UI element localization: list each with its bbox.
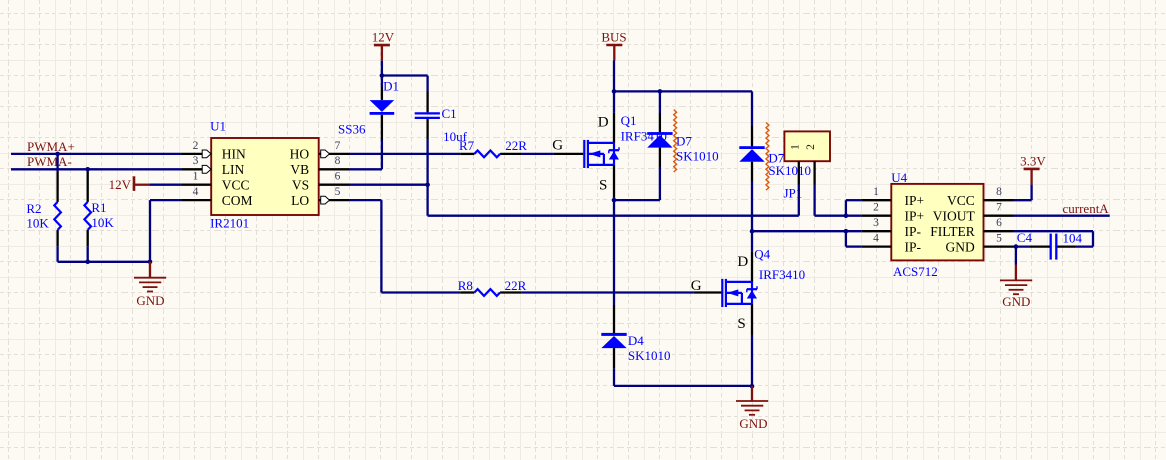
U1 pin 6 VS lead <box>319 184 349 186</box>
svg-text:HIN: HIN <box>222 147 246 162</box>
svg-text:S: S <box>737 316 745 332</box>
svg-text:10K: 10K <box>26 216 49 231</box>
transistor Q4 MOSFET symbol <box>722 279 757 307</box>
wire PWMA+ horizontal <box>11 153 182 155</box>
svg-text:6: 6 <box>335 171 341 183</box>
wire D1 to VB <box>381 140 383 169</box>
transistor Q1 MOSFET symbol <box>584 140 619 168</box>
wire FILTER horizontal <box>1014 230 1094 232</box>
svg-text:COM: COM <box>222 193 253 208</box>
resistor R8 body <box>474 289 500 296</box>
wire VS down to switch node <box>426 185 428 216</box>
svg-text:C4: C4 <box>1017 230 1033 245</box>
wire LO horizontal <box>349 199 381 201</box>
power port 12V top <box>372 30 395 61</box>
wire COM drop <box>149 200 151 262</box>
diode D7(2) body (SK1010, pointing up) <box>739 146 764 162</box>
U1 pin 2 HIN lead <box>182 153 211 155</box>
svg-text:1: 1 <box>193 171 199 183</box>
wire R1 bottom drop <box>87 246 89 261</box>
svg-text:8: 8 <box>335 155 341 167</box>
connector JP box <box>784 131 830 161</box>
svg-text:1: 1 <box>873 186 879 198</box>
Q4 gate pin <box>693 291 722 293</box>
svg-text:IR2101: IR2101 <box>210 216 249 231</box>
svg-text:SK1010: SK1010 <box>676 149 719 164</box>
wire IP+ pin1 horizontal <box>846 199 861 201</box>
junction IP+ node <box>844 213 849 218</box>
wire COM horizontal <box>150 199 182 201</box>
capacitor C4 plates <box>1051 234 1057 260</box>
wire IP+ pin1 riser <box>845 200 847 216</box>
svg-text:SK1010: SK1010 <box>628 348 671 363</box>
junction IP- node <box>844 229 849 234</box>
wire branch to C1 top <box>382 74 428 76</box>
resistor R1 pins <box>87 172 89 202</box>
U1 pin 3 LIN lead <box>182 168 211 170</box>
wire switch node horizontal <box>428 215 799 217</box>
wire JP pin1 down to switch node <box>798 185 800 216</box>
ground GND right <box>1000 265 1032 295</box>
wire R1 top drop <box>87 169 89 172</box>
svg-text:G: G <box>552 137 563 153</box>
svg-text:GND: GND <box>946 239 975 254</box>
junction GND node <box>148 260 153 265</box>
svg-text:VIOUT: VIOUT <box>933 209 976 224</box>
capacitor C1 bottom pin <box>426 119 428 139</box>
wire D7 anode down <box>659 167 661 200</box>
junction Q4 drain/IP- <box>750 229 755 234</box>
wire BUS stem down <box>613 61 615 92</box>
wire Q4 source to GND <box>751 335 753 386</box>
svg-text:R2: R2 <box>26 201 41 216</box>
svg-text:SS36: SS36 <box>338 121 366 136</box>
wire R8 to Q4 gate <box>521 291 693 293</box>
resistor R8 pins <box>460 291 474 293</box>
svg-text:FILTER: FILTER <box>930 224 975 239</box>
svg-text:R7: R7 <box>459 138 475 153</box>
D4 anode pin <box>613 348 615 369</box>
resistor R1 body <box>84 202 91 230</box>
svg-text:5: 5 <box>335 186 341 198</box>
wire R2 top drop <box>56 154 58 172</box>
U4 pin 5 lead <box>984 245 1014 247</box>
U4 pin 8 lead <box>984 199 1014 201</box>
Q1 gate pin <box>553 153 583 155</box>
diode D1 body (SS36, pointing down) <box>370 100 395 115</box>
svg-text:22R: 22R <box>505 138 527 153</box>
svg-text:VCC: VCC <box>222 178 250 193</box>
D4 cathode pin <box>613 305 615 333</box>
U1 pin 5 LO lead <box>319 199 349 201</box>
svg-text:currentA: currentA <box>1063 201 1110 216</box>
power port 3.3V <box>1020 154 1046 185</box>
junction BUS/Q1 drain <box>612 89 617 94</box>
junction pin5/GND <box>1014 244 1019 249</box>
svg-text:D: D <box>598 114 609 130</box>
svg-text:D1: D1 <box>383 78 399 93</box>
ground GND left <box>134 262 166 292</box>
U1 pin 4 COM lead <box>182 199 211 201</box>
wire 3.3V riser <box>1030 184 1032 200</box>
ground GND bottom <box>736 386 768 415</box>
ERC marker squiggle 1 <box>674 110 677 172</box>
wire GND drop right <box>1015 247 1017 265</box>
Q4 source pin <box>751 304 753 335</box>
svg-text:IRF3410: IRF3410 <box>759 267 805 282</box>
svg-text:7: 7 <box>996 202 1002 214</box>
svg-text:G: G <box>691 278 702 294</box>
junction BUS/D7 <box>658 89 663 94</box>
svg-text:D7: D7 <box>676 133 692 148</box>
junction VS/C1 <box>425 182 430 187</box>
svg-text:2: 2 <box>193 140 199 152</box>
wire bottom horizontal to GND <box>58 261 150 263</box>
wire C1 to VS <box>426 139 428 185</box>
diode D7 body (SK1010, pointing up) <box>647 132 672 148</box>
svg-text:12V: 12V <box>372 30 395 45</box>
resistor R2 body <box>54 202 61 230</box>
junction Q1 source/D7 <box>612 198 617 203</box>
svg-text:3: 3 <box>873 217 879 229</box>
U4 pin 1 lead <box>861 199 891 201</box>
wire VIOUT currentA <box>1014 215 1110 217</box>
junction 12V/D1/C1 <box>380 73 385 78</box>
wire Q1 drain from bus <box>613 91 615 113</box>
wire D4 to GND horizontal <box>614 385 752 387</box>
power port BUS <box>601 29 626 60</box>
svg-text:GND: GND <box>136 293 164 308</box>
wire R7 to Q1 gate <box>521 153 553 155</box>
wire C1 top drop <box>426 76 428 93</box>
wire FILTER to C4 <box>1075 245 1093 247</box>
svg-text:SK1010: SK1010 <box>768 163 811 178</box>
svg-text:3.3V: 3.3V <box>1020 154 1046 169</box>
svg-text:12V: 12V <box>109 177 132 192</box>
svg-text:GND: GND <box>739 416 767 431</box>
junction R1/bottom wire <box>85 260 90 265</box>
capacitor C4 left pin <box>1030 245 1050 247</box>
U1 pin 3 input arrow <box>202 165 211 173</box>
svg-text:ACS712: ACS712 <box>893 264 938 279</box>
U4 pin 7 lead <box>984 215 1014 217</box>
diode D4 body (SK1010, pointing up) <box>601 333 626 348</box>
wire 12V to VCC pin <box>149 184 182 186</box>
svg-text:VS: VS <box>292 178 309 193</box>
U1 pin 1 VCC lead <box>182 184 211 186</box>
svg-text:HO: HO <box>290 147 310 162</box>
wire 12V stem down <box>381 61 383 87</box>
Q1 source pin <box>613 165 615 197</box>
svg-text:GND: GND <box>1002 294 1030 309</box>
wire IP- pin4 horizontal <box>846 245 861 247</box>
svg-text:LO: LO <box>291 193 309 208</box>
wire JP pin2 down <box>813 185 815 216</box>
svg-text:S: S <box>599 178 607 194</box>
op-amp-driver U1 IR2101 box <box>211 138 319 215</box>
capacitor C1 top pin <box>426 92 428 112</box>
junction PWMA-/R1 <box>85 167 90 172</box>
svg-text:1: 1 <box>789 144 801 150</box>
wire JP pin2 to IP+ <box>815 215 862 217</box>
svg-text:2: 2 <box>873 202 879 214</box>
wire IP- pin4 riser <box>845 231 847 246</box>
junction GND bottom node <box>750 384 755 389</box>
U4 pin 3 lead <box>861 230 891 232</box>
svg-text:C1: C1 <box>442 106 457 121</box>
U1 pin 5 output arrow <box>321 196 330 204</box>
resistor R7 body <box>474 151 500 158</box>
wire Q4 drain from IP- node <box>751 231 753 252</box>
wire LO to R8 <box>381 291 460 293</box>
wire Q1 source to D4 column <box>613 197 615 305</box>
wire D4 anode down <box>613 369 615 386</box>
wire D7 bottom horizontal <box>614 199 660 201</box>
diode D7 cathode pin <box>659 113 661 132</box>
U4 pin 4 lead <box>861 245 891 247</box>
svg-text:PWMA+: PWMA+ <box>27 139 75 154</box>
svg-text:IP-: IP- <box>905 239 922 254</box>
svg-text:4: 4 <box>193 186 199 198</box>
svg-text:8: 8 <box>996 186 1002 198</box>
svg-text:U4: U4 <box>891 170 907 185</box>
U4 pin 6 lead <box>984 230 1014 232</box>
capacitor C4 right pin <box>1057 245 1075 247</box>
wire IP- horizontal <box>752 230 861 232</box>
JP pin 2 lead <box>813 161 815 184</box>
U4 pin 2 lead <box>861 215 891 217</box>
U1 pin 7 HO lead <box>319 153 349 155</box>
svg-text:7: 7 <box>335 140 341 152</box>
wire PWMA- horizontal <box>11 168 182 170</box>
svg-text:LIN: LIN <box>222 162 245 177</box>
svg-text:4: 4 <box>873 233 879 245</box>
power port 12V left <box>109 176 150 192</box>
resistor R7 pins <box>460 153 474 155</box>
wire D7(2) top drop <box>751 91 753 126</box>
svg-text:R8: R8 <box>458 278 473 293</box>
wire GND pin5 to C4 <box>1014 245 1031 247</box>
Q4 drain pin <box>751 252 753 282</box>
wire VCC pin8 to 3.3V <box>1014 199 1032 201</box>
IC U4 ACS712 box <box>891 184 983 261</box>
svg-text:6: 6 <box>996 217 1002 229</box>
JP pin 1 lead <box>798 161 800 184</box>
svg-text:Q1: Q1 <box>621 113 637 128</box>
U1 pin 8 VB lead <box>319 168 349 170</box>
diode D7 anode pin <box>659 148 661 167</box>
svg-text:D: D <box>737 254 748 270</box>
wire D7(2) anode to IP- node <box>751 181 753 231</box>
svg-text:2: 2 <box>805 144 817 150</box>
resistor R2 pins <box>56 172 58 202</box>
svg-text:BUS: BUS <box>601 29 626 44</box>
svg-text:D4: D4 <box>628 333 644 348</box>
junction PWMA+/R2 <box>55 152 60 157</box>
wire R2 bottom drop <box>56 246 58 261</box>
svg-text:VB: VB <box>290 162 309 177</box>
capacitor C1 plates <box>415 113 440 118</box>
svg-text:U1: U1 <box>210 119 226 134</box>
wire VS horizontal <box>349 184 428 186</box>
Q1 drain pin <box>613 113 615 143</box>
ERC marker squiggle 2 <box>766 123 769 191</box>
diode D1 anode pin <box>381 87 383 100</box>
wire VB to D1 column <box>349 168 382 170</box>
diode D7(2) anode pin <box>751 162 753 181</box>
wire D7 top drop <box>659 91 661 113</box>
svg-text:IP+: IP+ <box>905 209 925 224</box>
svg-text:10K: 10K <box>91 215 114 230</box>
U1 pin 7 output arrow <box>321 150 330 158</box>
svg-text:PWMA-: PWMA- <box>27 154 72 169</box>
diode D1 cathode pin <box>381 115 383 140</box>
svg-text:R1: R1 <box>91 200 106 215</box>
wire FILTER drop <box>1092 231 1094 246</box>
svg-text:104: 104 <box>1063 230 1083 245</box>
svg-text:IP-: IP- <box>905 224 922 239</box>
svg-text:22R: 22R <box>505 278 527 293</box>
wire HO to R7 <box>349 153 460 155</box>
U1 pin 2 input arrow <box>202 150 211 158</box>
svg-text:5: 5 <box>996 233 1002 245</box>
svg-text:Q4: Q4 <box>754 247 770 262</box>
diode D7(2) cathode pin <box>751 126 753 146</box>
svg-text:3: 3 <box>193 155 199 167</box>
svg-text:IP+: IP+ <box>905 193 925 208</box>
wire LO down <box>380 200 382 292</box>
wire BUS top horizontal <box>614 90 752 92</box>
svg-text:VCC: VCC <box>947 193 975 208</box>
